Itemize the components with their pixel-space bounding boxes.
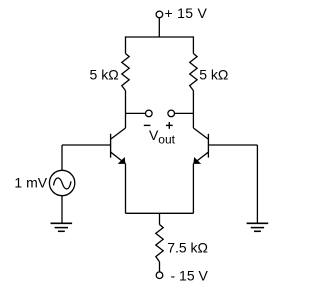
svg-text:1 mV: 1 mV: [14, 175, 47, 191]
svg-text:- 15 V: - 15 V: [171, 268, 209, 284]
svg-text:5 kΩ: 5 kΩ: [199, 66, 228, 82]
svg-text:7.5 kΩ: 7.5 kΩ: [167, 239, 208, 255]
svg-text:+ 15 V: + 15 V: [165, 5, 208, 21]
svg-text:out: out: [158, 132, 175, 146]
svg-text:5 kΩ: 5 kΩ: [90, 67, 119, 83]
